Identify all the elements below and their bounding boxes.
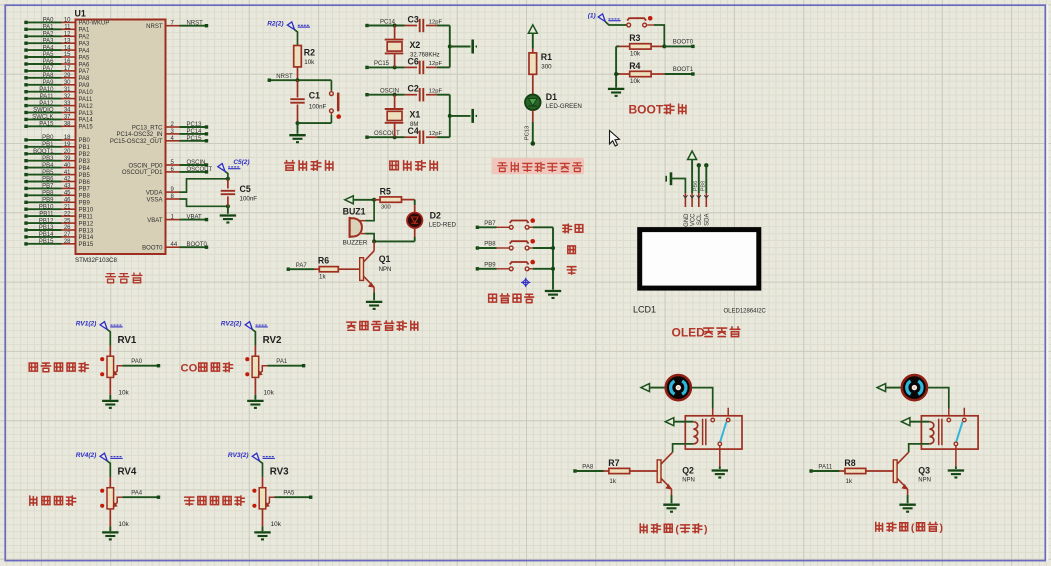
svg-text:44: 44 <box>171 242 178 248</box>
svg-text:PA7: PA7 <box>296 263 308 269</box>
svg-text:PA11: PA11 <box>40 94 54 100</box>
svg-text:RV3(2): RV3(2) <box>228 452 249 459</box>
svg-text:VSSA: VSSA <box>146 197 162 203</box>
svg-text:PB0: PB0 <box>79 138 91 144</box>
svg-text:OLED: OLED <box>672 325 706 339</box>
svg-text:PA10: PA10 <box>79 90 94 96</box>
svg-text:PA14: PA14 <box>79 118 94 124</box>
svg-text:X2: X2 <box>410 40 421 50</box>
svg-text:PB7: PB7 <box>79 187 91 193</box>
svg-text:41: 41 <box>64 170 71 176</box>
svg-text:38: 38 <box>64 122 71 128</box>
svg-text:R1: R1 <box>541 52 552 62</box>
svg-text:PB13: PB13 <box>39 225 54 231</box>
svg-text:PA5: PA5 <box>283 490 295 496</box>
svg-text:R7: R7 <box>608 458 619 468</box>
svg-text:BOOT1: BOOT1 <box>33 149 54 155</box>
svg-text:RV3: RV3 <box>270 467 289 478</box>
svg-text:R4: R4 <box>629 61 640 71</box>
svg-text:BUZ1: BUZ1 <box>343 206 366 216</box>
svg-text:PC14: PC14 <box>187 129 203 135</box>
svg-text:12pF: 12pF <box>429 131 443 137</box>
svg-text:PA11: PA11 <box>79 97 93 103</box>
svg-text:OSCIN: OSCIN <box>187 160 206 166</box>
svg-text:12pF: 12pF <box>429 61 443 67</box>
svg-text:1k: 1k <box>319 274 326 281</box>
svg-text:PA12: PA12 <box>39 101 54 107</box>
svg-text:Q3: Q3 <box>918 465 930 475</box>
svg-text:NRST: NRST <box>146 24 163 30</box>
svg-text:U1: U1 <box>75 9 86 19</box>
svg-text:PB8: PB8 <box>42 191 54 197</box>
svg-text:PB9: PB9 <box>484 262 496 268</box>
svg-text:PA8: PA8 <box>582 464 594 470</box>
svg-text:RV2: RV2 <box>263 335 282 346</box>
svg-text:): ) <box>940 522 944 534</box>
svg-text:NRST: NRST <box>276 74 293 80</box>
svg-text:RV4(2): RV4(2) <box>76 452 97 459</box>
svg-text:14: 14 <box>64 45 71 51</box>
svg-text:(: ( <box>911 522 915 534</box>
svg-text:PA3: PA3 <box>79 42 91 48</box>
svg-text:19: 19 <box>64 142 71 148</box>
svg-text:45: 45 <box>64 191 71 197</box>
svg-text:(: ( <box>675 524 679 536</box>
svg-text:12: 12 <box>64 32 71 38</box>
svg-text:BOOT0: BOOT0 <box>187 242 208 248</box>
svg-text:OSCOUT: OSCOUT <box>187 167 213 173</box>
svg-text:1k: 1k <box>846 478 853 485</box>
svg-text:PA2: PA2 <box>43 32 55 38</box>
svg-text:32: 32 <box>64 94 71 100</box>
svg-text:PA12: PA12 <box>79 104 94 110</box>
svg-text:100nF: 100nF <box>309 104 327 111</box>
svg-text:PB10: PB10 <box>79 208 94 214</box>
svg-text:C1: C1 <box>309 91 320 101</box>
svg-text:18: 18 <box>64 135 71 141</box>
svg-text:28: 28 <box>64 239 71 245</box>
svg-text:PB8: PB8 <box>79 194 91 200</box>
svg-text:SWDIO: SWDIO <box>33 108 54 114</box>
svg-text:PA7: PA7 <box>79 69 91 75</box>
svg-text:PB10: PB10 <box>39 204 54 210</box>
svg-text:20: 20 <box>64 149 71 155</box>
svg-text:34: 34 <box>64 108 71 114</box>
svg-text:33: 33 <box>64 101 71 107</box>
svg-text:PC15-OSC32_OUT: PC15-OSC32_OUT <box>110 139 163 145</box>
svg-text:PB6: PB6 <box>42 177 54 183</box>
svg-text:PA5: PA5 <box>79 55 91 61</box>
svg-text:PA2: PA2 <box>79 35 91 41</box>
svg-text:PB3: PB3 <box>42 156 54 162</box>
svg-text:RV1(2): RV1(2) <box>76 320 97 327</box>
svg-text:R8: R8 <box>844 458 855 468</box>
svg-text:10: 10 <box>64 18 71 24</box>
svg-text:PC15: PC15 <box>374 61 390 67</box>
svg-text:PA1: PA1 <box>43 25 55 31</box>
svg-text:PB14: PB14 <box>79 235 94 241</box>
svg-text:PB7: PB7 <box>484 221 496 227</box>
svg-text:C4: C4 <box>408 126 419 136</box>
svg-text:PA0-WKUP: PA0-WKUP <box>79 21 110 27</box>
svg-text:NRST: NRST <box>187 21 204 27</box>
svg-text:NPN: NPN <box>682 477 695 483</box>
svg-text:31: 31 <box>64 87 71 93</box>
svg-text:D1: D1 <box>546 92 557 102</box>
svg-text:PA0: PA0 <box>131 359 143 365</box>
svg-text:NPN: NPN <box>379 267 392 273</box>
svg-text:D2: D2 <box>430 211 441 221</box>
svg-text:(1): (1) <box>588 12 596 19</box>
svg-text:10k: 10k <box>630 51 641 58</box>
svg-text:PB12: PB12 <box>79 221 94 227</box>
svg-text:C2: C2 <box>408 84 419 94</box>
svg-text:PB13: PB13 <box>79 228 94 234</box>
svg-text:43: 43 <box>64 184 71 190</box>
svg-text:PB9: PB9 <box>79 201 91 207</box>
svg-text:16: 16 <box>64 59 71 65</box>
svg-text:VCC: VCC <box>691 213 697 226</box>
svg-text:PB6: PB6 <box>79 180 91 186</box>
svg-text:PA8: PA8 <box>43 73 55 79</box>
svg-text:PA6: PA6 <box>79 62 91 68</box>
svg-text:PA15: PA15 <box>39 122 54 128</box>
svg-text:PA11: PA11 <box>818 464 832 470</box>
svg-text:12pF: 12pF <box>429 19 443 25</box>
svg-text:10k: 10k <box>264 389 275 396</box>
svg-text:29: 29 <box>64 73 71 79</box>
svg-text:PA15: PA15 <box>79 125 94 131</box>
svg-text:PB8: PB8 <box>701 181 707 192</box>
svg-text:46: 46 <box>64 198 71 204</box>
svg-text:X1: X1 <box>410 110 421 120</box>
svg-text:SDA: SDA <box>705 214 711 226</box>
svg-text:PB15: PB15 <box>39 239 54 245</box>
svg-text:C5: C5 <box>240 184 251 194</box>
svg-text:C5(2): C5(2) <box>233 159 249 166</box>
svg-text:PB4: PB4 <box>42 163 54 169</box>
svg-text:RV2(2): RV2(2) <box>221 320 242 327</box>
svg-text:PB7: PB7 <box>42 184 54 190</box>
svg-text:300: 300 <box>381 205 391 211</box>
svg-text:10k: 10k <box>304 59 315 66</box>
svg-text:39: 39 <box>64 156 71 162</box>
svg-text:BOOT0: BOOT0 <box>142 246 163 252</box>
svg-text:PA10: PA10 <box>39 87 54 93</box>
svg-text:LED-RED: LED-RED <box>429 222 457 229</box>
svg-text:100nF: 100nF <box>240 196 258 203</box>
svg-text:11: 11 <box>64 25 71 31</box>
svg-text:PB4: PB4 <box>79 166 91 172</box>
svg-text:RV4: RV4 <box>118 467 137 478</box>
svg-text:10k: 10k <box>118 521 129 528</box>
svg-text:10k: 10k <box>271 521 282 528</box>
svg-text:R3: R3 <box>629 33 640 43</box>
svg-text:Q2: Q2 <box>682 465 694 475</box>
svg-text:PB9: PB9 <box>42 198 54 204</box>
svg-text:15: 15 <box>64 52 71 58</box>
svg-text:PB8: PB8 <box>484 242 496 248</box>
svg-text:22: 22 <box>64 211 71 217</box>
svg-text:30: 30 <box>64 80 71 86</box>
svg-text:PB11: PB11 <box>79 214 94 220</box>
svg-text:12pF: 12pF <box>429 89 443 95</box>
svg-text:PC13: PC13 <box>187 122 203 128</box>
svg-text:PA9: PA9 <box>43 80 55 86</box>
svg-text:PA7: PA7 <box>43 66 55 72</box>
svg-text:LED-GREEN: LED-GREEN <box>546 103 582 110</box>
svg-text:VDDA: VDDA <box>146 190 163 196</box>
svg-text:10k: 10k <box>630 78 641 85</box>
svg-text:PC13_RTC: PC13_RTC <box>132 125 163 131</box>
svg-text:13: 13 <box>64 38 71 44</box>
svg-text:42: 42 <box>64 177 71 183</box>
svg-text:PB6: PB6 <box>693 181 699 192</box>
svg-text:VBAT: VBAT <box>147 218 163 224</box>
svg-text:PC13: PC13 <box>525 126 531 141</box>
svg-text:Q1: Q1 <box>379 254 391 264</box>
svg-text:PB15: PB15 <box>79 242 94 248</box>
svg-text:PA4: PA4 <box>43 45 55 51</box>
svg-text:300: 300 <box>541 63 552 70</box>
svg-text:SWCLK: SWCLK <box>32 115 53 121</box>
svg-text:C6: C6 <box>408 56 419 66</box>
svg-text:26: 26 <box>64 225 71 231</box>
svg-text:R2: R2 <box>304 47 315 57</box>
svg-text:PA4: PA4 <box>79 48 91 54</box>
svg-text:SCL: SCL <box>697 213 703 225</box>
svg-text:PB11: PB11 <box>39 211 54 217</box>
svg-text:PC14-OSC32_IN: PC14-OSC32_IN <box>116 132 162 138</box>
svg-text:PA4: PA4 <box>131 490 143 496</box>
svg-text:R6: R6 <box>318 256 329 266</box>
svg-text:PA3: PA3 <box>43 38 55 44</box>
svg-text:VBAT: VBAT <box>187 215 203 221</box>
svg-text:PA5: PA5 <box>43 52 55 58</box>
svg-text:OSCOUT_PD1: OSCOUT_PD1 <box>122 170 163 176</box>
svg-text:37: 37 <box>64 115 71 121</box>
svg-text:R5: R5 <box>380 186 391 196</box>
svg-text:25: 25 <box>64 218 71 224</box>
svg-text:BOOT0: BOOT0 <box>673 39 694 45</box>
svg-text:C3: C3 <box>408 15 419 25</box>
svg-text:RV1: RV1 <box>118 335 137 346</box>
svg-text:PB1: PB1 <box>42 142 54 148</box>
svg-text:BUZZER: BUZZER <box>343 240 368 247</box>
svg-text:OSCIN_PD0: OSCIN_PD0 <box>128 163 163 169</box>
svg-text:BOOT: BOOT <box>629 103 664 117</box>
svg-text:PB12: PB12 <box>39 218 54 224</box>
svg-text:): ) <box>704 524 708 536</box>
svg-text:PA0: PA0 <box>43 18 55 24</box>
svg-text:STM32F103C8: STM32F103C8 <box>75 257 118 264</box>
svg-text:PB0: PB0 <box>42 135 54 141</box>
svg-text:PB1: PB1 <box>79 145 91 151</box>
svg-text:PB2: PB2 <box>79 152 91 158</box>
svg-text:PA8: PA8 <box>79 76 91 82</box>
svg-text:17: 17 <box>64 66 71 72</box>
svg-text:PC15: PC15 <box>187 136 203 142</box>
svg-text:BOOT1: BOOT1 <box>673 67 694 73</box>
svg-text:27: 27 <box>64 232 71 238</box>
svg-text:10k: 10k <box>118 389 129 396</box>
svg-text:PA6: PA6 <box>43 59 55 65</box>
svg-text:PB3: PB3 <box>79 159 91 165</box>
svg-text:PA9: PA9 <box>79 83 91 89</box>
svg-text:PB5: PB5 <box>79 173 91 179</box>
svg-text:PA1: PA1 <box>79 28 91 34</box>
svg-text:PA13: PA13 <box>79 111 94 117</box>
svg-text:R2(2): R2(2) <box>267 21 283 28</box>
svg-text:PB14: PB14 <box>39 232 54 238</box>
svg-text:PA1: PA1 <box>276 359 288 365</box>
svg-text:1k: 1k <box>609 478 616 485</box>
svg-text:NPN: NPN <box>918 477 931 483</box>
svg-text:OLED12864I2C: OLED12864I2C <box>724 309 767 315</box>
svg-text:LCD1: LCD1 <box>633 304 656 314</box>
svg-text:PB5: PB5 <box>42 170 54 176</box>
svg-text:40: 40 <box>64 163 71 169</box>
svg-text:CO: CO <box>181 363 198 375</box>
svg-text:21: 21 <box>64 204 71 210</box>
svg-text:GND: GND <box>684 213 690 227</box>
